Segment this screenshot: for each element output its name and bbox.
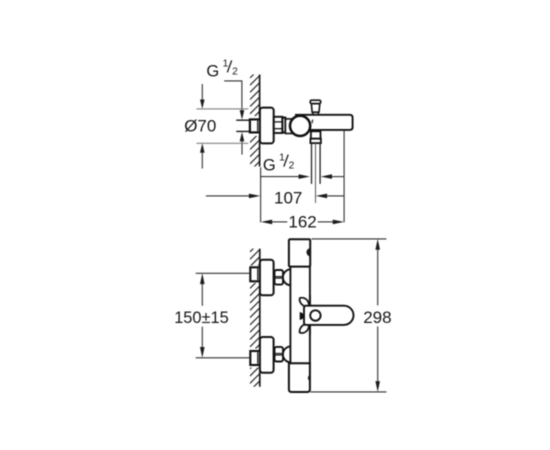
union nut (side view) [274,117,283,133]
extension line outlet centre [315,143,317,203]
bottom hex nut (front view) [250,351,260,365]
top escutcheon (front view) [260,260,274,296]
lever bottom petal [300,324,310,333]
lever top petal [300,298,310,307]
top union nut (front view) [275,270,284,285]
svg-text:162: 162 [288,213,316,232]
dimension 150+-15 extension lines [196,273,251,358]
shower outlet ring 1 [311,131,321,138]
bottom cap button [308,375,310,381]
shower outlet ring 2 [310,139,321,143]
dimension 298 extension lines [311,239,387,392]
body edge over petals [309,295,311,306]
supply pipe (side view) [236,116,260,136]
top hex nut (front view) [250,267,260,281]
svg-text:1: 1 [279,153,285,164]
label G 1/2 (wall supply thread) [206,59,238,81]
neck cone (side view) [285,119,293,134]
body mid section [290,267,310,364]
lever pivot circle [310,310,320,320]
svg-text:150±15: 150±15 [174,309,229,327]
wall face line (front view) [259,249,261,387]
leader for G 1/2 top [224,81,244,155]
bottom inlet bulge [283,346,291,362]
svg-text:2: 2 [289,161,295,172]
dimension O70 extension lines [196,109,248,143]
bottom union nut (front view) [275,347,284,362]
lever mark [300,312,304,320]
svg-text:G: G [206,62,219,80]
dimension 162 [261,213,344,232]
svg-text:Ø70: Ø70 [184,117,216,136]
extension line wall face [260,167,262,222]
diverter knob cap [310,100,321,103]
dimension 150+-15 [174,273,229,358]
hex wall fitting (side view) [250,119,260,132]
wall face line (side view) [259,75,261,167]
escutcheon (side view) [260,108,274,144]
shoulder arc tick [311,120,314,124]
lever paddle [304,306,354,325]
thermostat cap circle (side view) [290,116,310,136]
body top cap [289,239,310,266]
svg-text:1: 1 [223,59,229,70]
spout body (side view) [296,115,353,130]
svg-text:298: 298 [363,308,391,327]
top inlet bulge [283,269,291,285]
shower outlet tube [312,143,321,184]
diverter knob taper [311,104,319,113]
wall hatch (side view) [250,68,260,178]
svg-text:107: 107 [274,189,302,208]
flange ring (side view) [282,118,285,133]
dimension O70 arrows [200,84,205,169]
label G 1/2 (shower outlet thread) [263,153,295,175]
extension line spout outlet [343,130,345,222]
body bottom cap [289,363,310,392]
diverter knob neck [313,112,318,114]
dimension 298 [363,239,391,392]
dimension 107 [206,189,344,208]
svg-text:G: G [263,157,276,175]
bottom escutcheon (front view) [260,337,274,373]
svg-text:2: 2 [232,67,238,78]
top cap button [306,248,310,256]
wall hatch (front view) [250,242,260,398]
dimension G 1/2 outlet arrows [261,174,344,179]
